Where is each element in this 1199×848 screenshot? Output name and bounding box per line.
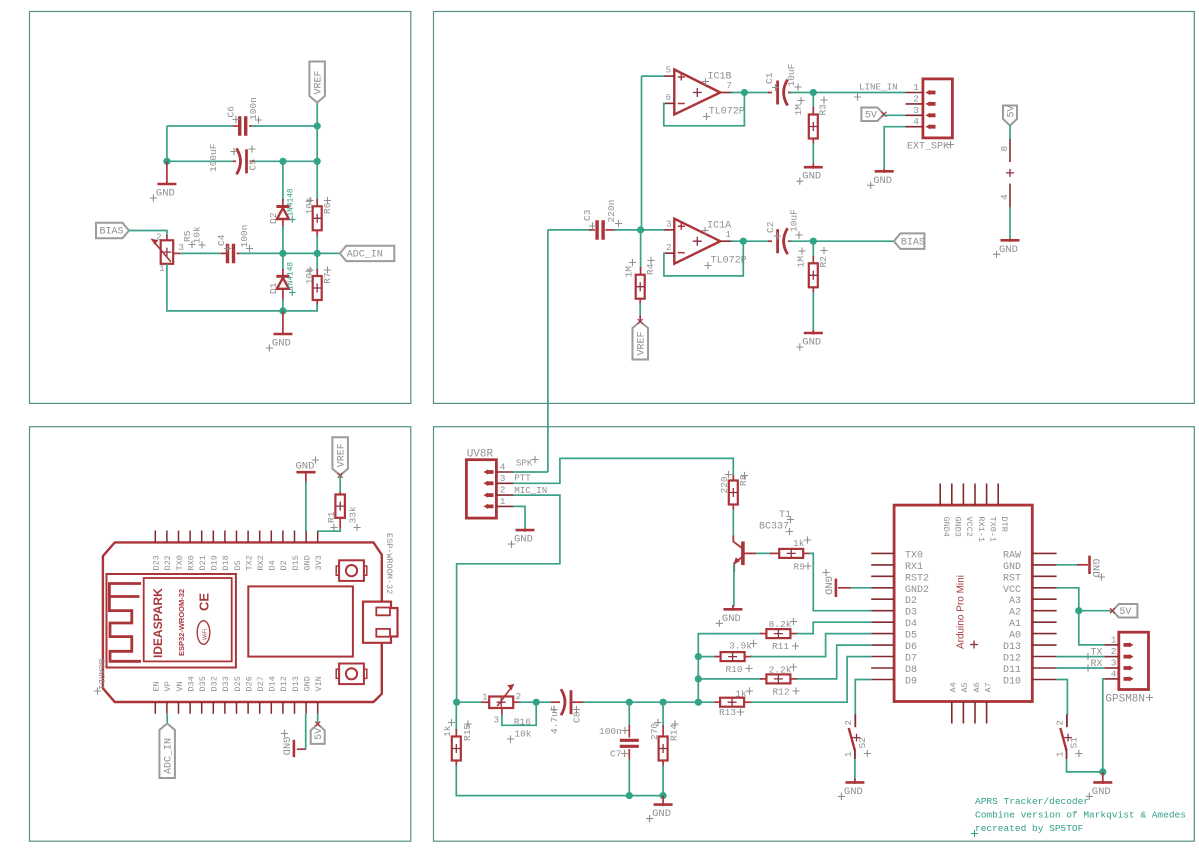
pin RX1-1 Arduino top <box>974 484 976 506</box>
wire SPK net <box>513 471 548 473</box>
wire R5 wiper to C4 <box>180 252 223 254</box>
USB connector <box>363 602 398 643</box>
pin VCC Arduino right <box>1032 587 1056 589</box>
svg-text:3: 3 <box>500 473 506 484</box>
capacitor C4 100n <box>221 252 227 254</box>
svg-text:1: 1 <box>726 230 731 240</box>
ground GND1 <box>166 161 168 184</box>
svg-text:3.9k: 3.9k <box>729 641 752 652</box>
svg-text:100uF: 100uF <box>208 143 219 172</box>
wire row to R16 <box>457 701 483 703</box>
wire IC1A feedback loop <box>664 241 743 276</box>
svg-text:GND: GND <box>722 613 741 625</box>
node IC1B output junction <box>731 92 770 94</box>
flag 5V sheet3 <box>317 714 319 725</box>
svg-text:220: 220 <box>719 476 730 493</box>
resistor R11 8.2k <box>716 633 762 635</box>
wire R12 to D6 <box>797 645 872 679</box>
RF shield can <box>248 586 353 656</box>
svg-text:10uF: 10uF <box>786 63 797 86</box>
pin D2 Arduino left <box>871 598 894 600</box>
svg-text:5V: 5V <box>1119 607 1131 618</box>
svg-text:RX1: RX1 <box>905 562 923 573</box>
svg-text:D35: D35 <box>198 676 208 691</box>
wire C1 to LINE_IN <box>790 92 906 94</box>
wire MIC long vertical to sheet 4 <box>547 230 549 472</box>
wire R15 to bottom row <box>456 765 663 796</box>
capacitor C6 <box>233 125 239 127</box>
node IC1A output junction <box>731 240 770 242</box>
pin TX0-1 Arduino top <box>986 484 988 506</box>
ground GND right of Arduino <box>1057 564 1079 566</box>
svg-text:D1: D1 <box>268 282 279 294</box>
svg-text:PTT: PTT <box>514 473 531 484</box>
svg-text:VN: VN <box>175 681 185 691</box>
pin RAW Arduino right <box>1032 552 1056 554</box>
pin A5 Arduino bottom <box>962 702 964 724</box>
svg-text:D25: D25 <box>233 676 243 691</box>
transistor T1 BC337 <box>741 541 745 565</box>
wire PTT net <box>513 458 733 483</box>
svg-text:LINE_IN: LINE_IN <box>859 82 898 93</box>
svg-text:2: 2 <box>500 485 506 496</box>
resistor R9 1k <box>756 552 772 554</box>
svg-text:2: 2 <box>1111 646 1117 657</box>
svg-text:7: 7 <box>727 81 732 91</box>
flag ADC_IN <box>340 246 395 261</box>
wire R16 wiper loop <box>501 708 503 716</box>
pin A3 Arduino right <box>1032 598 1056 600</box>
svg-text:GND: GND <box>272 338 291 350</box>
svg-text:3: 3 <box>666 220 671 230</box>
svg-text:D4: D4 <box>268 560 278 570</box>
resistor R4 1M <box>640 230 642 269</box>
svg-text:1: 1 <box>500 496 506 507</box>
svg-text:R4: R4 <box>645 263 656 275</box>
ground GND under T1 <box>732 605 734 611</box>
svg-text:IDEASPARK: IDEASPARK <box>151 588 165 658</box>
wire IC1B + input <box>642 75 665 77</box>
diode D2 1N4148 <box>276 205 289 208</box>
pin 4 GPSM8N <box>1104 678 1119 680</box>
diode D1 1N4148 <box>282 253 284 271</box>
wire IC1A + input <box>641 229 664 231</box>
svg-text:6: 6 <box>666 93 671 103</box>
resistor R1 33k <box>339 492 341 495</box>
svg-text:1: 1 <box>913 82 919 93</box>
svg-text:D7: D7 <box>905 654 917 665</box>
svg-text:1M: 1M <box>624 266 635 278</box>
svg-text:A2: A2 <box>1009 608 1021 619</box>
resistor R10 3.9k <box>715 656 721 658</box>
frame sheet 4 (Arduino tracker) <box>434 427 1195 842</box>
ground GND bottom row <box>662 796 664 807</box>
wire S2 to GND <box>854 759 856 781</box>
pin D13 Arduino right <box>1032 644 1056 646</box>
svg-text:8: 8 <box>999 146 1010 152</box>
flag BIAS sheet2 <box>894 233 925 249</box>
pin D5 Arduino left <box>871 633 894 635</box>
ESP32 module shield <box>107 574 236 668</box>
svg-text:BIAS: BIAS <box>100 227 124 238</box>
pin RST2 Arduino left <box>871 575 894 577</box>
node bus D9 junction <box>695 675 702 682</box>
svg-text:RX0: RX0 <box>186 555 196 570</box>
svg-text:3V3: 3V3 <box>314 555 324 570</box>
svg-text:1k: 1k <box>793 538 805 549</box>
pin GND Arduino right <box>1032 564 1056 566</box>
wire MIC vertical to IC1B <box>641 76 643 230</box>
svg-text:D5: D5 <box>233 560 243 570</box>
svg-text:SPK: SPK <box>516 458 533 469</box>
pin 2 IC1A <box>664 252 674 254</box>
svg-text:D27: D27 <box>256 676 266 691</box>
node bus D7 junction <box>695 653 702 660</box>
svg-text:220n: 220n <box>606 200 617 223</box>
svg-text:4: 4 <box>913 116 919 127</box>
pin TX0 Arduino left <box>871 552 894 554</box>
flag VREF sheet3 <box>332 437 348 475</box>
pin D9 Arduino left <box>871 679 894 681</box>
svg-text:VCC2: VCC2 <box>964 517 974 537</box>
svg-text:Combine version of Markqvist &: Combine version of Markqvist & Amedes <box>975 810 1186 821</box>
svg-text:BIAS: BIAS <box>901 237 925 248</box>
node bottom junction <box>279 307 286 314</box>
svg-text:EN: EN <box>152 681 162 691</box>
ground GND S1 <box>1102 772 1104 784</box>
ground GND under R3 <box>812 164 814 169</box>
wire D12 to GPS TX <box>1057 656 1105 658</box>
svg-text:3: 3 <box>179 243 184 253</box>
svg-text:A3: A3 <box>1009 596 1021 607</box>
svg-text:R9: R9 <box>794 562 806 573</box>
svg-text:GND: GND <box>296 461 315 473</box>
svg-text:1: 1 <box>159 264 164 274</box>
wire pin4 to GND <box>884 127 905 169</box>
button EN top <box>339 560 364 581</box>
op-amp IC1B TL072P <box>674 70 720 115</box>
svg-text:2: 2 <box>156 233 161 243</box>
svg-text:2: 2 <box>913 93 919 104</box>
pin D4 Arduino left <box>871 621 894 623</box>
svg-text:D23: D23 <box>152 555 162 570</box>
svg-text:1k: 1k <box>442 725 453 737</box>
svg-text:5V: 5V <box>314 728 325 740</box>
pin D11 Arduino right <box>1032 667 1056 669</box>
pin A0 Arduino right <box>1032 633 1056 635</box>
capacitor C5 <box>250 160 254 162</box>
svg-text:TL072P: TL072P <box>711 256 747 267</box>
svg-text:GND4: GND4 <box>941 517 951 537</box>
svg-text:1N4148: 1N4148 <box>288 262 296 290</box>
pin 4 V- <box>1009 184 1011 208</box>
svg-text:A1: A1 <box>1009 619 1021 630</box>
ground GND at GND2 <box>849 587 871 589</box>
node ADC_IN junction <box>314 250 321 257</box>
svg-text:D33: D33 <box>221 676 231 691</box>
wire T1 emitter to GND <box>733 564 735 607</box>
svg-text:GND: GND <box>652 808 671 820</box>
svg-text:ESP-WROOM-32: ESP-WROOM-32 <box>384 533 394 594</box>
svg-text:TX2: TX2 <box>244 555 254 570</box>
svg-text:RST: RST <box>1003 573 1021 584</box>
pin DTR Arduino top <box>997 484 999 506</box>
svg-text:GND: GND <box>156 188 175 200</box>
pin D12 Arduino right <box>1032 656 1056 658</box>
svg-text:2: 2 <box>1056 720 1066 725</box>
resistor R13 1k <box>715 701 721 703</box>
pin A1 Arduino right <box>1032 621 1056 623</box>
svg-text:D2: D2 <box>268 212 279 224</box>
svg-text:R7: R7 <box>322 272 333 283</box>
pin 1 UV8R <box>496 505 513 507</box>
frame sheet 3 (ESP32 board) <box>30 427 411 842</box>
pin 2 GPSM8N <box>1104 656 1119 658</box>
wire R10 to D5 <box>751 634 872 657</box>
pin RST Arduino right <box>1032 575 1056 577</box>
wire net VREF top row <box>167 125 233 127</box>
node GND junction S1 <box>1099 768 1106 775</box>
svg-text:Arduino Pro Mini: Arduino Pro Mini <box>956 575 967 649</box>
wire to 5V flag <box>1079 610 1113 612</box>
svg-text:R12: R12 <box>772 687 789 698</box>
pin 1 GPSM8N <box>1104 644 1119 646</box>
svg-text:D8: D8 <box>905 665 917 676</box>
svg-text:1: 1 <box>1055 752 1065 757</box>
svg-text:10k: 10k <box>192 226 203 243</box>
svg-text:TX0: TX0 <box>905 550 923 561</box>
pin 3 IC1A <box>664 229 674 231</box>
svg-text:VREF: VREF <box>637 331 648 355</box>
svg-text:R13: R13 <box>719 707 736 718</box>
svg-text:D21: D21 <box>198 555 208 570</box>
svg-text:1M: 1M <box>796 256 807 268</box>
svg-text:D26: D26 <box>244 676 254 691</box>
svg-text:D18: D18 <box>221 555 231 570</box>
wire ladder bus <box>698 634 716 703</box>
pin A7 Arduino bottom <box>986 702 988 724</box>
switch S2 <box>854 714 856 727</box>
pin 6 IC1B <box>664 102 674 104</box>
node C7 junction <box>626 699 633 706</box>
pin 4 EXT_SPK <box>906 126 923 128</box>
node R2 junction <box>810 238 817 245</box>
svg-text:A5: A5 <box>960 682 970 692</box>
svg-text:D19: D19 <box>210 555 220 570</box>
svg-text:C6: C6 <box>226 106 237 118</box>
svg-text:R2: R2 <box>818 256 829 268</box>
svg-text:5V: 5V <box>1007 105 1018 117</box>
svg-text:VIN: VIN <box>314 676 324 691</box>
svg-text:D2: D2 <box>905 596 917 607</box>
svg-text:GND: GND <box>514 534 533 546</box>
svg-text:GND: GND <box>999 244 1018 256</box>
svg-text:VP: VP <box>163 681 173 691</box>
svg-text:D2: D2 <box>279 560 289 570</box>
wire C2 to BIAS <box>790 240 894 242</box>
svg-text:A7: A7 <box>983 682 993 692</box>
resistor R15 1k <box>455 702 457 731</box>
svg-text:D12: D12 <box>1003 654 1021 665</box>
ground GND EXT_SPK <box>883 169 885 173</box>
button BOOT bottom <box>339 664 364 685</box>
frame sheet 1 (input filter) <box>30 12 411 404</box>
svg-text:5V: 5V <box>865 111 877 122</box>
svg-text:UV8R: UV8R <box>467 449 494 461</box>
pin A2 Arduino right <box>1032 610 1056 612</box>
svg-text:S1: S1 <box>1069 737 1080 749</box>
svg-text:R8: R8 <box>738 474 749 486</box>
svg-text:1N4148: 1N4148 <box>288 188 296 216</box>
pin 1 IC1A output <box>721 240 733 242</box>
svg-text:D4: D4 <box>905 619 917 630</box>
pin 1 EXT_SPK <box>906 92 923 94</box>
connector UV8R <box>466 460 496 518</box>
wire R1 to 3V3 pin <box>318 528 341 531</box>
flag VREF under R4 <box>639 316 641 321</box>
svg-text:4: 4 <box>500 462 506 473</box>
wire GPS pin4 to GND <box>1103 679 1105 772</box>
svg-text:C1: C1 <box>764 72 775 84</box>
svg-text:D6: D6 <box>905 642 917 653</box>
pin 3 EXT_SPK <box>906 114 923 116</box>
svg-text:D34: D34 <box>186 676 196 691</box>
svg-text:GND: GND <box>280 737 292 756</box>
wire bus to R12 <box>698 678 762 680</box>
ground GND2 <box>282 311 284 335</box>
svg-text:C7: C7 <box>610 749 621 760</box>
svg-text:GND3: GND3 <box>953 517 963 537</box>
svg-text:ESP32-WROOM-32: ESP32-WROOM-32 <box>177 589 186 656</box>
svg-text:TL072P: TL072P <box>709 107 745 118</box>
pin A4 Arduino bottom <box>951 702 953 724</box>
pin 5 IC1B <box>664 75 674 77</box>
svg-text:C3: C3 <box>582 209 593 221</box>
svg-text:VREF: VREF <box>314 70 325 94</box>
connector GPSM8N <box>1119 632 1149 689</box>
svg-text:A6: A6 <box>972 682 982 692</box>
svg-text:APRS Tracker/decoder: APRS Tracker/decoder <box>975 796 1089 807</box>
wire VREF stem <box>316 103 318 161</box>
svg-text:D22: D22 <box>163 555 173 570</box>
resistor R2 1M <box>812 241 814 258</box>
node R14 junction <box>660 699 667 706</box>
wire C8 to ladder <box>583 701 717 703</box>
svg-text:100n: 100n <box>248 97 259 120</box>
svg-text:D9: D9 <box>905 677 917 688</box>
svg-text:R1: R1 <box>326 511 337 523</box>
node VREF junction <box>314 122 321 129</box>
svg-text:CE: CE <box>197 593 212 611</box>
svg-text:GND2: GND2 <box>905 585 929 596</box>
svg-text:10k: 10k <box>514 729 531 740</box>
wire VREF to R1 <box>339 475 341 493</box>
antenna zigzag <box>109 584 141 662</box>
svg-text:33k: 33k <box>348 506 359 523</box>
resistor R3 1M <box>812 93 814 110</box>
module BOARD1 ESP32 outline <box>103 542 382 702</box>
svg-text:GND: GND <box>1003 562 1021 573</box>
svg-text:1k: 1k <box>735 689 747 700</box>
svg-text:4: 4 <box>1111 668 1117 679</box>
capacitor C1 10uF <box>768 92 772 94</box>
svg-text:RX1-1: RX1-1 <box>976 517 986 543</box>
wire C4 to ADC node <box>239 252 340 254</box>
pin VCC2 Arduino top <box>962 484 964 506</box>
wire D2 branch <box>282 161 284 201</box>
svg-text:VCC: VCC <box>1003 585 1021 596</box>
resistor R14 270 <box>662 702 664 727</box>
wire D10 to S1 <box>1057 680 1068 716</box>
pin D8 Arduino left <box>871 667 894 669</box>
connector EXT_SPK <box>923 79 953 138</box>
node R14 bottom junction <box>660 792 667 799</box>
svg-text:D13: D13 <box>1003 642 1021 653</box>
pin 3 GPSM8N <box>1104 667 1119 669</box>
trimmer R5 10k <box>166 235 168 240</box>
wire bottom row R5 to R7 <box>167 264 317 311</box>
WiFi logo <box>197 621 210 645</box>
node C5 left junction <box>163 158 170 165</box>
svg-text:R14: R14 <box>669 724 680 741</box>
svg-text:GND: GND <box>802 171 821 183</box>
svg-text:D11: D11 <box>1003 665 1021 676</box>
svg-text:D5: D5 <box>905 631 917 642</box>
svg-text:GND: GND <box>873 175 892 187</box>
wire D9 to S2 <box>855 680 871 716</box>
capacitor C3 220n <box>548 229 591 231</box>
svg-text:100n: 100n <box>599 726 622 737</box>
flag 5V EXT_SPK <box>861 108 884 122</box>
svg-text:VREF: VREF <box>337 443 348 467</box>
pin D3 Arduino left <box>871 610 894 612</box>
svg-text:BC337: BC337 <box>759 522 789 533</box>
wire R8 to T1 collector <box>732 510 734 538</box>
pin D10 Arduino right <box>1032 679 1056 681</box>
svg-text:1: 1 <box>482 693 487 703</box>
svg-text:GND: GND <box>802 337 821 349</box>
pin 2 EXT_SPK <box>906 103 923 105</box>
svg-text:GND: GND <box>302 676 312 691</box>
wire IC1B feedback loop <box>664 93 745 126</box>
svg-text:GPSM8N: GPSM8N <box>1105 694 1145 706</box>
wire VCC to 5V <box>1057 588 1105 645</box>
pin 7 IC1B output <box>721 92 733 94</box>
svg-text:1: 1 <box>844 752 854 757</box>
resistor R12 2.2k <box>760 678 766 680</box>
wire BIAS to R5 <box>129 231 167 237</box>
wire bus to R10 <box>698 656 716 658</box>
svg-text:DTR: DTR <box>999 517 1009 532</box>
flag BIAS <box>96 223 129 238</box>
node D1 top junction <box>279 250 286 257</box>
node 5V junction <box>1075 607 1082 614</box>
node R3 junction <box>810 89 817 96</box>
ground GND UV8R <box>524 528 526 532</box>
wire pot to C8 <box>520 701 555 703</box>
svg-text:RST2: RST2 <box>905 573 929 584</box>
svg-text:S2: S2 <box>857 737 868 749</box>
ground GND bottom <box>305 714 307 749</box>
pin D7 Arduino left <box>871 656 894 658</box>
ground GND under R2 <box>812 330 814 335</box>
capacitor C2 10uF <box>768 240 772 242</box>
svg-text:WiFi: WiFi <box>203 629 209 640</box>
svg-text:4: 4 <box>999 194 1010 200</box>
svg-text:GND: GND <box>844 786 863 798</box>
node R6 top junction <box>314 158 321 165</box>
node MIC junction <box>637 226 644 233</box>
